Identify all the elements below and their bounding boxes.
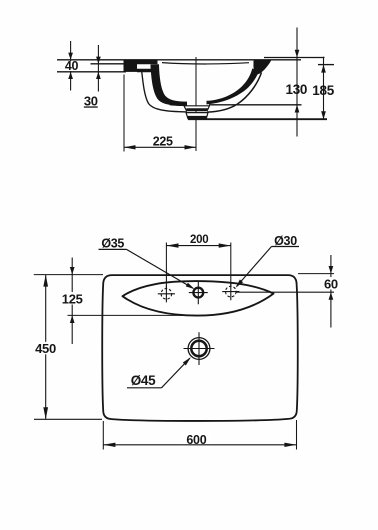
label 200 [187, 234, 212, 246]
leader Ø30 [237, 247, 272, 287]
dim 185 line [323, 57, 325, 119]
svg-text:600: 600 [186, 433, 206, 447]
dim 450 bottom ext [34, 418, 102, 420]
text labels with white masks [33, 59, 340, 447]
svg-text:Ø35: Ø35 [101, 237, 124, 251]
label 30 [84, 93, 98, 108]
drain crosshair [184, 332, 215, 365]
bowl interior surface (thick, right of drain) [207, 68, 259, 104]
dim 30 arrows [96, 57, 101, 79]
left faucet hole crosshair [158, 285, 175, 302]
section: inner rim lip line [162, 63, 249, 64]
front edge beak [253, 60, 271, 74]
svg-text:185: 185 [312, 83, 334, 98]
dim 185 arrows [321, 65, 326, 120]
dim 125 line [71, 258, 73, 345]
leader Ø45 [162, 358, 190, 388]
bowl exterior thin line (right) [207, 73, 262, 113]
drain lower flange black band [187, 116, 207, 119]
dim 40 line [70, 41, 72, 91]
bowl bottom thick band left of drain [170, 101, 188, 106]
svg-text:40: 40 [65, 59, 79, 73]
dim 30 line [97, 45, 99, 92]
section: slot-top line B [91, 63, 138, 65]
leader Ø35 arrowhead [186, 283, 195, 289]
label Ø45 [127, 373, 162, 388]
section: front top ext line D [264, 57, 325, 59]
leader Ø35 [127, 249, 194, 288]
svg-text:Ø45: Ø45 [131, 373, 156, 388]
svg-text:125: 125 [62, 291, 83, 306]
section: short ext line G [318, 64, 334, 66]
dim 40 arrows [68, 53, 73, 79]
label 60 [323, 276, 340, 291]
label Ø30 [272, 234, 300, 248]
svg-text:450: 450 [35, 341, 56, 356]
drain upper flange [184, 106, 210, 111]
plan top ext right [298, 273, 334, 275]
basin back wall (thick) [151, 64, 188, 106]
plan holes ext right [236, 291, 334, 293]
svg-text:130: 130 [285, 82, 307, 97]
dim 225 line [124, 146, 196, 148]
basin lens [123, 281, 274, 316]
drain hole inner [191, 341, 206, 356]
centre faucet hole [189, 281, 208, 304]
label 600 [181, 433, 213, 447]
dim 600 line [103, 444, 296, 446]
svg-text:60: 60 [324, 276, 338, 291]
dim 450 line [45, 275, 47, 420]
section: rim top line A [57, 59, 301, 61]
section: rim bottom line C [57, 71, 126, 73]
label 450 [33, 341, 59, 356]
drain hole outer [188, 338, 210, 360]
right faucet hole crosshair [222, 283, 239, 300]
plan outline [102, 275, 298, 421]
dim 450 arrows [43, 275, 48, 420]
overflow channel outer thin line [142, 70, 188, 112]
label Ø35 [99, 237, 127, 251]
dim 200 line [166, 245, 230, 247]
dim 600 arrows [103, 443, 296, 447]
dim 60 arrows [329, 266, 334, 300]
dim 130 line [296, 28, 298, 137]
dim 125 bottom ext [68, 314, 184, 316]
leader Ø30 arrowhead [236, 279, 244, 287]
drain upper flange black band [186, 108, 207, 110]
dim 600 ext lines [103, 420, 296, 450]
drain lower flange [186, 113, 208, 119]
leader Ø45 arrowhead [183, 357, 191, 365]
dim 225 ext line left [123, 75, 125, 152]
section: bottom line F [188, 118, 327, 120]
dim 225 arrows [124, 145, 196, 149]
section: drain centerline [195, 57, 197, 151]
label 130 [285, 82, 307, 97]
section: drain-level line E [209, 104, 302, 106]
label 40 [62, 59, 82, 73]
dim 130 arrows [295, 50, 300, 113]
label 225 [150, 135, 177, 149]
label 125 [61, 291, 84, 306]
svg-text:30: 30 [84, 93, 98, 108]
dim 200 ext lines [166, 243, 230, 289]
svg-text:200: 200 [190, 234, 208, 246]
svg-text:225: 225 [153, 135, 173, 149]
label 185 [312, 83, 334, 98]
dim 200 arrows [166, 243, 230, 247]
svg-text:Ø30: Ø30 [274, 234, 297, 248]
plan top ext left [34, 274, 103, 276]
dim 125 arrows [70, 267, 75, 323]
basin rim block (back) [124, 60, 158, 73]
dim 60 line [330, 255, 332, 328]
